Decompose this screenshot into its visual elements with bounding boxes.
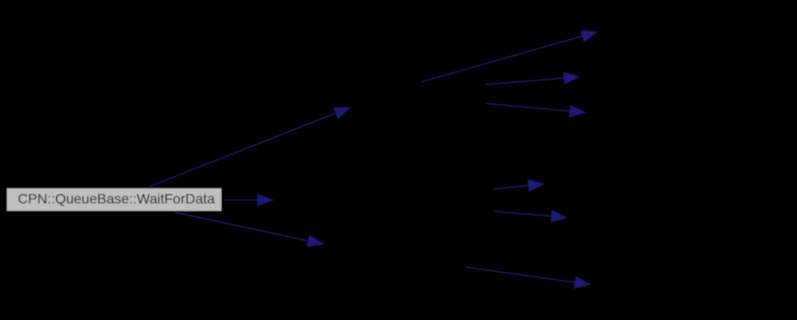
edge box->A xyxy=(149,108,350,187)
edge B->G xyxy=(494,180,544,191)
svg-text:CPN::QueueBase::WaitForData: CPN::QueueBase::WaitForData xyxy=(18,191,215,207)
edge B->H xyxy=(494,211,567,222)
node CPN::QueueBase::WaitForData xyxy=(6,188,222,212)
edge A->D xyxy=(421,31,597,83)
edge box->B xyxy=(224,194,273,205)
edge box->C xyxy=(175,212,323,246)
edge C->I xyxy=(466,267,590,288)
edge A->F xyxy=(485,103,585,116)
edge A->E xyxy=(485,72,579,84)
